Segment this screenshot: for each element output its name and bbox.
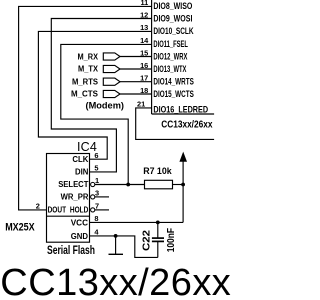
capacitor C22 top lead	[157, 222, 159, 238]
svg-text:DIO13_WTX: DIO13_WTX	[153, 64, 186, 74]
svg-text:21: 21	[137, 100, 145, 109]
junction node GND	[114, 234, 118, 238]
svg-text:DIO16_LEDRED: DIO16_LEDRED	[153, 104, 208, 114]
svg-text:GND: GND	[71, 231, 88, 241]
svg-text:13: 13	[140, 23, 148, 32]
wire HOLD stub	[95, 209, 109, 211]
svg-text:16: 16	[140, 61, 148, 70]
junction node R7/VCC	[181, 183, 185, 187]
svg-text:14: 14	[140, 36, 149, 45]
chip U? CC13xx/26xx left edge	[151, 0, 153, 114]
svg-text:R7 10k: R7 10k	[143, 166, 172, 176]
flag M_RTS	[103, 78, 120, 85]
wire SELECT to R7	[95, 184, 145, 186]
wire VCC pin8 horizontal	[90, 221, 184, 223]
svg-text:DIO8_WISO: DIO8_WISO	[153, 1, 192, 11]
svg-text:HOLD: HOLD	[70, 205, 89, 215]
svg-text:M_TX: M_TX	[78, 65, 99, 74]
capacitor C22 bottom lead	[157, 242, 159, 258]
svg-text:DIO12_WRX: DIO12_WRX	[153, 52, 187, 62]
svg-text:MX25X: MX25X	[5, 221, 35, 233]
ground bar	[109, 253, 124, 255]
wire GND pin4	[90, 236, 158, 258]
wire net DIO9_WOSI to DIN	[51, 19, 151, 172]
svg-text:CC13xx/26xx: CC13xx/26xx	[0, 262, 231, 300]
bubble WR_PR pin3	[91, 195, 95, 199]
svg-text:DIO15_WCTS: DIO15_WCTS	[153, 89, 193, 99]
svg-text:VCC: VCC	[71, 217, 88, 227]
svg-text:DIO14_WRTS: DIO14_WRTS	[153, 77, 193, 87]
svg-text:WR_PR: WR_PR	[61, 192, 90, 202]
wire R7 right to VCC stem	[173, 184, 184, 186]
svg-text:7: 7	[95, 202, 99, 211]
junction node SELECT/R7	[126, 183, 130, 187]
flag M_TX	[103, 65, 120, 72]
wire WR_PR stub	[95, 196, 109, 198]
svg-text:17: 17	[140, 74, 148, 83]
svg-text:DIN: DIN	[75, 167, 88, 177]
svg-text:(Modem): (Modem)	[86, 101, 125, 111]
svg-text:12: 12	[140, 10, 148, 19]
svg-text:4: 4	[94, 228, 99, 237]
resistor R7 body	[145, 180, 173, 189]
svg-text:DOUT: DOUT	[48, 205, 67, 215]
wire VCC vertical	[182, 162, 184, 223]
junction node C22 top	[156, 221, 160, 225]
ground stem	[115, 236, 117, 254]
bubble HOLD pin7	[91, 208, 95, 212]
svg-text:M_RX: M_RX	[78, 52, 99, 61]
wire pin15 M_RX	[120, 56, 152, 58]
svg-text:1: 1	[95, 176, 99, 185]
svg-text:18: 18	[140, 86, 148, 95]
svg-text:M_RTS: M_RTS	[72, 77, 98, 86]
svg-text:100nF: 100nF	[166, 228, 177, 252]
svg-text:DIO10_SCLK: DIO10_SCLK	[153, 26, 194, 36]
chip bottom edge	[152, 113, 215, 115]
capacitor C22 plates	[152, 237, 164, 239]
IC4 divider	[47, 215, 90, 217]
svg-text:C22: C22	[142, 230, 153, 251]
bubble SELECT pin1	[91, 182, 95, 186]
flag M_CTS	[103, 90, 120, 97]
wire net DIO11_FSEL to SELECT	[61, 44, 152, 184]
svg-text:CC13xx/26xx: CC13xx/26xx	[161, 120, 213, 131]
svg-text:Serial Flash: Serial Flash	[47, 245, 95, 257]
svg-text:SELECT: SELECT	[58, 179, 89, 189]
svg-text:IC4: IC4	[77, 140, 97, 154]
svg-text:11: 11	[140, 0, 148, 7]
svg-text:3: 3	[95, 189, 99, 198]
svg-text:5: 5	[94, 164, 98, 173]
svg-text:M_CTS: M_CTS	[71, 90, 98, 99]
svg-text:DIO11_FSEL: DIO11_FSEL	[153, 39, 188, 49]
wire pin17 M_RTS	[120, 81, 152, 83]
wire pin18 M_CTS	[120, 93, 152, 95]
wire net DIO10_SCLK to CLK	[38, 31, 151, 159]
flag M_RX	[103, 53, 120, 60]
svg-text:CLK: CLK	[72, 154, 89, 164]
svg-text:2: 2	[36, 202, 40, 211]
svg-text:15: 15	[140, 49, 148, 58]
svg-text:8: 8	[94, 214, 98, 223]
power VCC arrow	[179, 152, 187, 162]
wire net DIO16_LEDRED	[136, 108, 214, 139]
wire pin16 M_TX	[120, 68, 152, 70]
IC4 box	[47, 154, 90, 243]
svg-text:DIO9_WOSI: DIO9_WOSI	[153, 13, 192, 23]
wire net DIO8_WISO to DOUT	[19, 6, 152, 210]
